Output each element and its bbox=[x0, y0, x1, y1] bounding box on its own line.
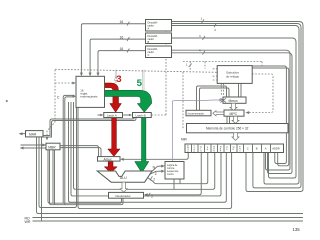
clock subcycle stub 1 bbox=[213, 68, 218, 70]
dashed clock stub into register file bbox=[55, 82, 74, 84]
arrowhead to memory from MBR bbox=[20, 147, 24, 150]
svg-text:C: C bbox=[247, 146, 249, 150]
wire: MIR SH field fan-out to shifter control bbox=[145, 153, 201, 195]
wire: MBR second output pair down 2 bbox=[54, 150, 56, 205]
arrowhead Z bbox=[161, 170, 165, 173]
svg-text:MBR: MBR bbox=[48, 145, 56, 149]
arrowhead dashed into register file bbox=[72, 82, 76, 85]
svg-text:do relógio: do relógio bbox=[226, 74, 240, 78]
wire stub with arrow into latch A bbox=[98, 114, 102, 116]
outline arrow ALU to shifter bbox=[120, 182, 127, 192]
wire: microseq stub 2 bbox=[179, 179, 181, 184]
slash mark 16 on decoder B bus bbox=[127, 37, 129, 41]
svg-text:16: 16 bbox=[120, 36, 124, 40]
slash mark 1 on decoder A top input bbox=[202, 19, 204, 23]
arrowhead Mmux select bbox=[219, 99, 223, 102]
shifter box (Deslocador) bbox=[109, 192, 144, 198]
svg-text:A: A bbox=[148, 26, 150, 30]
dashed clock line across diagram bbox=[55, 69, 217, 72]
svg-text:C: C bbox=[148, 53, 150, 57]
left margin dot bbox=[6, 100, 8, 102]
dashed clock drop near decoders bbox=[165, 30, 167, 115]
red A-bus arrow: horizontal band from register file bbox=[105, 83, 122, 112]
dashed clock top branch bbox=[183, 62, 262, 71]
wire: long bottom line from MAR column bbox=[37, 137, 304, 214]
Mmux box bbox=[223, 97, 246, 103]
svg-text:C: C bbox=[57, 95, 60, 99]
thin wire pair under green bend bbox=[141, 70, 143, 90]
wire: MIR ENC field fan-out down-left and up left side bbox=[69, 102, 227, 202]
dashed clock branch to B latch bbox=[151, 114, 166, 116]
wire: B latch output branch to MAR line 1 bbox=[43, 117, 135, 136]
red A-bus arrow: Amux to ALU bbox=[104, 161, 117, 173]
svg-text:endereçáveis: endereçáveis bbox=[80, 95, 98, 99]
svg-text:Mmux: Mmux bbox=[229, 99, 239, 103]
arrowhead memory MAR bbox=[19, 132, 23, 135]
wire: right bus to decoder C input 2 bbox=[172, 53, 293, 174]
svg-text:B: B bbox=[148, 40, 150, 44]
Amux box bbox=[98, 157, 121, 162]
mux X mark bbox=[221, 98, 227, 102]
svg-text:Deslocador: Deslocador bbox=[116, 194, 131, 198]
svg-text:2: 2 bbox=[151, 195, 153, 199]
wire: decoder A output bus to register file top bbox=[81, 24, 145, 74]
dashed from clock box bottom toward Mmux bbox=[221, 83, 223, 95]
arrowhead N bbox=[161, 165, 165, 168]
wire: MIR MBR field fan-out down-left and up left side bbox=[74, 102, 215, 189]
slash mark 16 on decoder C bus bbox=[127, 49, 129, 53]
wire: MIR ALU field fan-out to ALU control bbox=[147, 153, 207, 184]
MPC box bbox=[224, 110, 244, 116]
slash mark 4 on decoder B input bbox=[203, 36, 205, 40]
svg-text:B: B bbox=[256, 146, 258, 150]
slash mark 1 on clock dashed bbox=[189, 64, 192, 68]
wire: MIR AMUX field to Amux select bbox=[122, 153, 189, 160]
wire: MIR B field up right edge to decoder A input 2 bbox=[172, 24, 302, 188]
svg-text:A: A bbox=[265, 146, 267, 150]
dashed clock drop to MAR bbox=[47, 70, 55, 139]
incrementer box bbox=[186, 110, 211, 116]
decoder B box bbox=[146, 33, 172, 44]
svg-text:16: 16 bbox=[120, 20, 124, 24]
slash mark 4 on decoder A third input bbox=[214, 23, 216, 27]
thin wire pair under green bend 2 bbox=[143, 70, 145, 90]
dashed clock drop to control store region bbox=[182, 72, 184, 129]
wire: MBR output to Amux line 2 bbox=[60, 148, 101, 157]
slash mark 2 on ALU control bbox=[150, 176, 152, 180]
outline arrow MPC to control store bbox=[232, 116, 239, 123]
wire: MBR to memory out bbox=[21, 147, 47, 149]
wire: MBR second output pair down 1 bbox=[52, 150, 54, 203]
svg-text:WR: WR bbox=[25, 220, 31, 224]
svg-text:ALU: ALU bbox=[120, 176, 127, 180]
arrowhead C bus into register file bbox=[73, 95, 77, 98]
wire: incrementer output to Mmux line 1 bbox=[197, 86, 227, 111]
MBR box bbox=[46, 143, 60, 150]
wire: shifter loop branch up to MBR line 2 bbox=[50, 150, 124, 205]
svg-text:ADDR: ADDR bbox=[272, 146, 279, 150]
slash mark 16 on decoder A bus bbox=[127, 22, 129, 26]
wire: Z flag to microsequencing logic bbox=[150, 171, 163, 174]
svg-text:Amux: Amux bbox=[104, 157, 113, 161]
svg-text:Incrementador: Incrementador bbox=[188, 111, 205, 115]
microsequencing logic box bbox=[165, 162, 184, 180]
wire: MIR A field up right edge to decoder A input 3 bbox=[172, 26, 300, 185]
wire: ADDR field pair to Mmux line 2 bbox=[239, 68, 289, 166]
wire: WR line across bottom bbox=[33, 220, 304, 222]
MIR cell dividers bbox=[192, 144, 271, 153]
green B-bus arrow: horizontal band from register file bbox=[105, 90, 152, 112]
arrowhead into register file from decoder B bbox=[89, 73, 92, 77]
wire: shifter output loop to C bus line 2 bbox=[65, 97, 75, 205]
wire: microsequencing output up and across to Mmux select bbox=[173, 100, 222, 162]
svg-text:MPC: MPC bbox=[230, 112, 238, 116]
clock box (Subciclos do relógio) bbox=[217, 66, 252, 84]
control store box (Memória de controle) bbox=[187, 124, 289, 133]
svg-text:Latch B: Latch B bbox=[136, 113, 146, 117]
wire: decoder B output bus to register file top bbox=[90, 39, 145, 74]
wire: shifter output loop to C bus line 1 bbox=[48, 150, 122, 203]
svg-text:16: 16 bbox=[120, 47, 124, 51]
wire: C bus pair up to register file line 1 bbox=[63, 95, 74, 203]
wire: B latch output branch to MAR line 2 bbox=[43, 118, 137, 138]
wire: register control pair down to bottom lines 2 bbox=[173, 179, 175, 189]
svg-text:2: 2 bbox=[153, 177, 155, 181]
arrowhead into register file from decoder C bbox=[97, 73, 100, 77]
arrowhead into register file from decoder A bbox=[80, 73, 83, 77]
svg-text:Z: Z bbox=[155, 172, 157, 176]
wire: decoder C output bus to register file top bbox=[98, 51, 146, 74]
clock subcycle stub 2 bbox=[213, 75, 218, 77]
green B-bus arrow: latch B to ALU bbox=[135, 118, 149, 173]
wire: MIR MAR field fan-out down-left and up left side bbox=[71, 102, 221, 196]
arrowhead dashed into MPC bbox=[246, 111, 250, 114]
svg-text:135: 135 bbox=[293, 227, 301, 232]
wire: ADDR field pair to Mmux (via tight U below MIR) line 1 bbox=[241, 66, 286, 164]
outline arrow control store to MIR bbox=[232, 133, 239, 141]
dashed clock right branch to MPC bbox=[247, 74, 274, 113]
small outline arrow beside 3 bbox=[114, 77, 117, 81]
arrowhead into Amux right edge bbox=[120, 158, 124, 161]
wire: memory arrow out of MAR bbox=[20, 133, 26, 135]
red A-bus arrow: latch A to Amux bbox=[108, 118, 120, 157]
outline arrow Mmux to MPC bbox=[230, 103, 237, 110]
svg-text:MIR: MIR bbox=[181, 138, 188, 142]
thin wire pair above red bend bbox=[115, 70, 117, 83]
svg-text:MAR: MAR bbox=[29, 133, 37, 137]
wire: N flag to microsequencing logic bbox=[151, 166, 162, 172]
decoder C box bbox=[146, 46, 172, 58]
wire: right bus to decoder C input 1 bbox=[172, 50, 291, 170]
MAR box bbox=[26, 131, 44, 137]
wire: incrementer output to Mmux line 2 bbox=[200, 88, 230, 111]
decoder A box bbox=[146, 20, 172, 32]
clock subcycle stub 3 bbox=[213, 79, 218, 81]
svg-text:5: 5 bbox=[137, 78, 143, 89]
latch B box bbox=[133, 113, 152, 118]
svg-text:Memória de controle 256 × 32: Memória de controle 256 × 32 bbox=[206, 127, 249, 131]
wire: register control pair down to bottom lines 1 bbox=[39, 107, 77, 207]
slash mark 2 on shifter control bbox=[148, 193, 150, 197]
slash mark 4 on decoder C input bbox=[203, 51, 205, 55]
wire: RD line across bottom bbox=[33, 217, 304, 219]
wire: memory to MBR in bbox=[21, 144, 47, 146]
wire: MPC second output pair to control store bbox=[227, 116, 230, 123]
register file box bbox=[76, 76, 105, 107]
wire: MIR WR field fan-out to left column bbox=[41, 137, 43, 221]
wire: MIR C field up right edge to decoder A input 1 bbox=[172, 22, 304, 192]
svg-text:Latch A: Latch A bbox=[107, 113, 117, 117]
arrowhead dashed into MBR bbox=[46, 137, 49, 141]
svg-text:mento: mento bbox=[167, 173, 174, 176]
wire stub with arrow into latch B bbox=[123, 114, 130, 116]
arrowhead into MBR bbox=[42, 144, 46, 147]
outline arrow MPC to incrementer bbox=[213, 111, 224, 116]
MIR register box bbox=[185, 144, 284, 153]
wire: MIR RD field fan-out to left column bbox=[78, 107, 232, 208]
wire: right bus to decoder B input bbox=[172, 38, 297, 178]
latch A box bbox=[104, 113, 123, 118]
wire: MBR output to Amux line 1 bbox=[60, 146, 99, 157]
arrowhead into shifter control bbox=[144, 193, 148, 196]
ALU trapezoid bbox=[97, 171, 152, 182]
